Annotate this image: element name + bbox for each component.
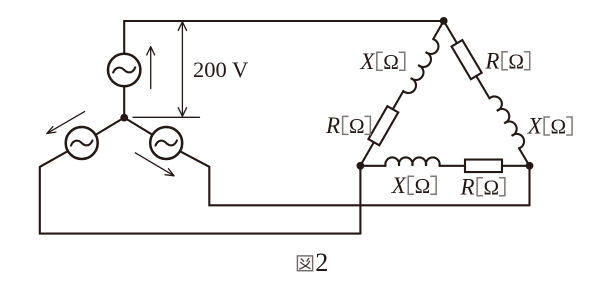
svg-text:X: X — [359, 49, 375, 74]
ac source V1 (top phase) — [108, 54, 140, 86]
wire riser to delta bottom-left — [359, 166, 361, 234]
node N neutral junction — [120, 114, 128, 122]
resistor R left leg — [368, 106, 398, 145]
resistor R right leg — [452, 40, 482, 79]
wire riser to delta bottom-right — [528, 166, 530, 206]
arrow up (top phase voltage direction) — [147, 47, 155, 89]
wire delta left leg lower segment — [360, 142, 374, 166]
wire delta bottom leg right segment — [502, 165, 530, 167]
label R[Ω] bottom resistor — [460, 174, 505, 199]
right leg group: from top vertex (443.5,21) rotated 59deg — [438, 16, 537, 169]
svg-text:X: X — [391, 173, 407, 198]
label X[Ω] left leg coil — [359, 49, 404, 74]
svg-text:Ω: Ω — [484, 175, 500, 199]
node delta bottom-right vertex — [526, 162, 534, 170]
inductor X right leg (4 bumps outward) — [489, 94, 526, 149]
wire node to right source — [124, 118, 152, 135]
wire top source upper lead — [123, 21, 125, 54]
label X[Ω] bottom coil — [391, 173, 436, 198]
svg-text:Ω: Ω — [415, 174, 431, 198]
node delta top vertex — [440, 17, 448, 25]
wire delta left leg upper segment — [433, 21, 443, 39]
label X[Ω] right leg coil — [527, 114, 572, 139]
inductor X left leg (4 bumps outward) — [403, 39, 441, 96]
dimension reference line at node — [133, 116, 200, 118]
wire delta right leg middle segment — [476, 76, 489, 98]
wire delta right leg upper segment — [444, 21, 457, 43]
svg-text:R: R — [460, 174, 475, 199]
svg-text:Ω: Ω — [383, 50, 399, 74]
wire delta left leg middle segment — [393, 91, 403, 109]
resistor R bottom — [465, 160, 502, 173]
wire top source lower lead — [123, 86, 125, 117]
left leg group: from top vertex (443.5,21) rotated 120deg — [355, 18, 452, 171]
node delta bottom-left vertex — [357, 162, 365, 170]
svg-text:Ω: Ω — [551, 115, 567, 139]
label R[Ω] right leg resistor — [484, 48, 529, 73]
ac source V2 (left phase) — [66, 127, 98, 159]
wire right source to middle bus — [180, 151, 530, 205]
wire delta bottom leg middle segment — [440, 165, 466, 167]
wire delta bottom leg left segment — [360, 165, 385, 167]
caption 図2 — [297, 256, 312, 271]
wire top bus from source to delta top — [124, 20, 444, 22]
svg-text:Ω: Ω — [508, 49, 524, 73]
svg-text:R: R — [325, 113, 340, 138]
svg-text:200 V: 200 V — [193, 57, 248, 82]
wire left source to bottom bus — [40, 151, 361, 234]
svg-text:2: 2 — [315, 248, 328, 277]
label R[Ω] left leg resistor — [325, 113, 370, 138]
arrow left phase direction — [47, 112, 85, 134]
dimension line 200V with arrowheads — [178, 22, 186, 116]
wire node to left source — [96, 118, 125, 135]
svg-text:R: R — [484, 48, 499, 73]
inductor X bottom (4 bumps up) — [385, 157, 439, 165]
svg-text:X: X — [527, 114, 543, 139]
ac source V3 (right phase) — [150, 127, 182, 159]
arrow right phase direction — [135, 153, 174, 176]
wire delta right leg lower segment — [519, 148, 529, 165]
svg-text:Ω: Ω — [349, 114, 365, 138]
